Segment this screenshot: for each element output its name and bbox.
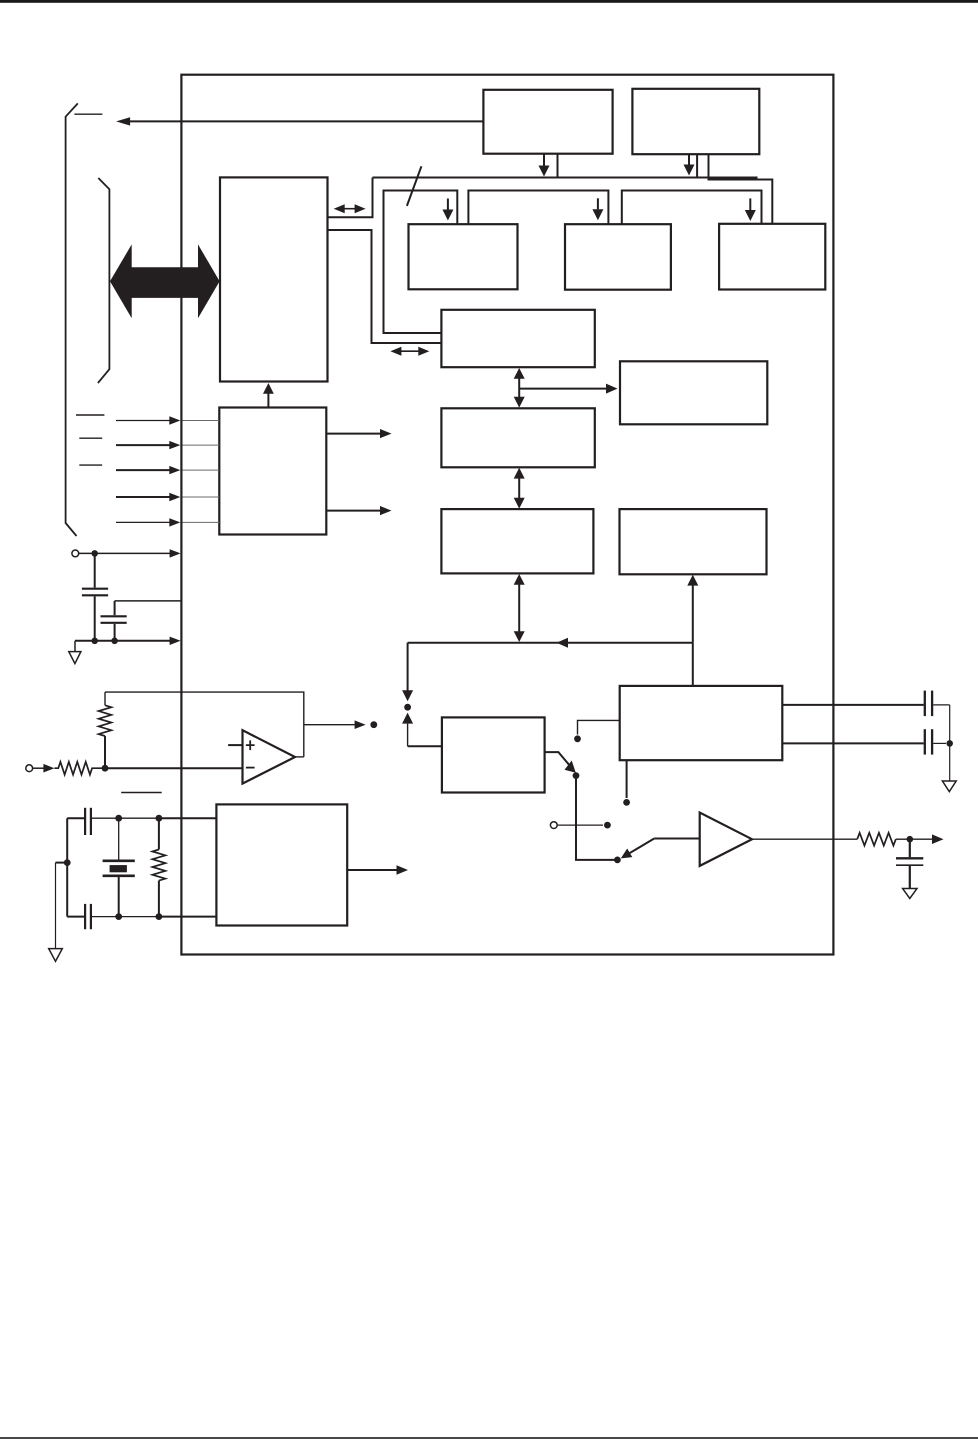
wire: long arrow from block A to left edge [129, 120, 483, 122]
arrow down to block E [597, 198, 599, 209]
wire: input 2 inside chip to block J [183, 444, 220, 446]
thick bus double arrow [110, 244, 220, 318]
arrow up into summing node from block N input wire [402, 713, 413, 724]
inner left brace [98, 178, 110, 383]
node at cap junction [946, 740, 953, 747]
input arrow 3 [116, 469, 170, 471]
node cap2 to ground wire [111, 638, 118, 645]
block I (control 2) [441, 408, 594, 467]
input arrow 5 [116, 521, 170, 523]
stub from block M bottom to contact 3 [626, 760, 628, 798]
bus rail 2 segment: block D to block E [468, 191, 608, 225]
node dot after output arrow [370, 721, 377, 728]
arrow up into block L [692, 586, 694, 643]
wire into output buffer [654, 838, 700, 840]
wire to oscillator ground [56, 862, 68, 864]
external pin circle (switch input) [550, 822, 557, 829]
bus rail 2 segment: block E to block F [622, 191, 762, 224]
node on power wire [91, 550, 98, 557]
wire: block A vertical to rail1 [557, 154, 559, 178]
wire into block N [408, 745, 442, 747]
label line below op-amp [121, 792, 162, 794]
block K (control 3) [441, 509, 593, 573]
capacitor C-xtal-top [67, 817, 84, 819]
block B (top right memory) [632, 89, 759, 154]
ground symbol (reference caps) [942, 781, 956, 792]
block J output arrow 1 [326, 433, 380, 435]
wire from pin to contact 2 [557, 824, 603, 826]
contact 2 node [604, 822, 611, 829]
contact 1 node [574, 735, 581, 742]
block C (bus interface, tall left) [220, 177, 328, 381]
input arrow 1 [116, 420, 170, 422]
node xtal bottom left [115, 913, 122, 920]
op-amp output wire [295, 756, 304, 758]
block N (PGA block) [442, 717, 545, 792]
resistor R-xtal (vertical zigzag) [158, 818, 160, 849]
power pin circle [72, 550, 79, 557]
wire: power pin into chip [79, 552, 170, 554]
op-amp output arrow to internal node [304, 724, 355, 726]
switch arm with arrow into common node [630, 839, 655, 854]
block H (right of G) [620, 361, 767, 424]
page footer rule [0, 1437, 978, 1439]
wire from analog wire down to block M top [692, 643, 694, 686]
capacitor 2 (supply decoupling) [114, 601, 116, 615]
horizontal analog wire [408, 642, 693, 644]
node xtal top left [115, 815, 122, 822]
node xtal ground tap [64, 859, 71, 866]
reference capacitor 2 [924, 729, 926, 754]
input arrow 4 [116, 496, 170, 498]
switch common node [614, 857, 621, 864]
resistor R-out (horizontal zigzag) [857, 833, 896, 846]
ground symbol (output filter) [903, 889, 917, 899]
arrow from block B down to rail [688, 154, 690, 165]
wire: input 1 inside chip to block J [183, 420, 220, 422]
wire: xtal bottom rail [92, 916, 159, 918]
block L (right of K) [620, 509, 767, 574]
arrow into input resistor [33, 767, 44, 769]
label line top left [74, 113, 102, 115]
wire: block C second wire down to block G [328, 230, 442, 343]
wire: input 5 inside chip to block J [183, 521, 220, 523]
wire from pole down to common [576, 776, 617, 860]
op-amp plus input stub [228, 744, 242, 746]
crystal Y1 [118, 818, 120, 861]
wire to inverting input [105, 767, 243, 769]
node cap1 to ground wire [91, 638, 98, 645]
block E (peripheral 2) [565, 224, 671, 290]
wire corner down to summing node [407, 643, 409, 691]
block O (oscillator block) [216, 804, 347, 925]
double arrow between block K and analog wire [518, 584, 520, 632]
wire: input 3 inside chip to block J [183, 469, 220, 471]
wire: input 4 inside chip to block J [183, 496, 220, 498]
input arrow 2 [116, 444, 170, 446]
input pin circle (op-amp) [26, 765, 33, 772]
outer left brace [66, 103, 78, 536]
arrow from block J up to block C [267, 393, 269, 408]
output filter capacitor [909, 839, 911, 857]
reference capacitor 1 [924, 691, 926, 717]
capacitor 1 (supply decoupling) [94, 553, 96, 587]
double arrow between block G and block I [518, 378, 520, 398]
ground wire into chip [75, 640, 170, 642]
op-amp minus sign [246, 767, 255, 769]
output node [907, 836, 914, 843]
ground symbol (oscillator) [49, 949, 63, 962]
contact 3 node [623, 799, 630, 806]
block O output arrow [347, 869, 397, 871]
bus rail lower level from block B to block F [709, 154, 773, 224]
bus width slash [407, 166, 422, 206]
switch pole node [573, 772, 580, 779]
bidirectional arrow near block C [343, 208, 357, 210]
arrow from chain to block H [519, 388, 606, 390]
node xtal bottom right [156, 913, 163, 920]
bus rail 1 (upper) [373, 177, 758, 179]
label line for input 2 [79, 437, 102, 439]
bus rail 2 with drop to block G [384, 191, 458, 334]
arrow down to block F [749, 198, 751, 210]
ground symbol (supply) [74, 641, 76, 652]
wire from block M to cap wire 1 [782, 704, 923, 706]
double arrow between block I and block K [518, 478, 520, 500]
arrow down to block D [447, 199, 449, 210]
wire: second supply into chip [115, 600, 181, 602]
block F (peripheral 3) [719, 224, 825, 290]
op-amp U1 [243, 730, 296, 783]
resistor R-in (horizontal zigzag) [54, 762, 105, 775]
bidirectional arrow near block G [400, 350, 420, 352]
wire: xtal top rail [92, 817, 159, 819]
output buffer amplifier [700, 813, 752, 866]
capacitor C-xtal-bottom [67, 916, 84, 918]
wire from block N to switch pole [545, 752, 570, 765]
block D (peripheral 1) [409, 224, 518, 289]
output arrow [910, 838, 932, 840]
block G (control 1) [441, 310, 594, 367]
feedback top wire [105, 692, 304, 757]
block M (reference block) [620, 686, 783, 760]
block J output arrow 2 [326, 510, 380, 512]
wire from block M to cap wire 2 [782, 742, 923, 744]
wire from block M left to contact 1 [578, 720, 620, 734]
summing node [404, 704, 411, 711]
wire caps to ground [949, 705, 951, 781]
label line for input 1 [76, 414, 104, 416]
wire: block B vertical to rail1 [696, 154, 698, 178]
label line for input 3 [79, 464, 102, 466]
node xtal top right [156, 815, 163, 822]
wire: rail1 left corner to block C [328, 178, 373, 218]
op-amp plus sign [246, 740, 255, 750]
left arrow on analog wire [557, 638, 569, 648]
oscillator left vertical wire [66, 818, 68, 916]
page header rule [0, 0, 978, 3]
block J (input port block) [219, 408, 326, 535]
block A (top left memory) [483, 90, 612, 154]
resistor R-fb (vertical zigzag) [104, 736, 106, 768]
node at op-amp inverting input [102, 765, 109, 772]
arrow from block A down to rail [543, 154, 545, 166]
chip boundary [181, 75, 833, 955]
output wire from buffer [752, 838, 857, 840]
